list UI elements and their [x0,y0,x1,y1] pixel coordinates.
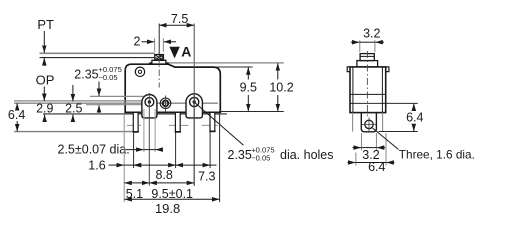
dimension 5.1 (bottom row 2) [124,183,149,201]
svg-text:7.5: 7.5 [171,12,188,26]
right mounting hole boss with tab below body [186,94,202,118]
dimension 1.6 (bottom row 1) [88,158,141,172]
plunger centerline [158,24,160,57]
middle circle vertical tick [165,96,167,113]
A position marker (filled triangle) [169,44,191,60]
molded circle mark on cover [135,67,144,76]
dimension 3.2 (side bottom, tab) [353,133,386,162]
svg-text:dia. holes: dia. holes [280,148,334,162]
left mounting hole boss with tab below body [142,95,157,118]
label 2.5±0.07 dia. with leader [58,143,164,157]
free position line (gray) [40,52,155,54]
dimension 6.4 (left) [8,103,25,131]
hole centerline pair (gray) [14,100,145,102]
dimension 9.5 (right, body height) [216,67,257,111]
label 2.35 dia. holes with leader [195,103,334,163]
left terminal [133,112,139,131]
terminal mounting reference dashes (gray) [127,124,218,126]
label Three, 1.6 dia. with leader [373,128,475,162]
cover seam line [350,93,386,95]
dimension 6.4 (side right) [379,103,424,131]
terminal tip reference line [14,131,133,133]
dimension 2.35 +0.075/-0.05 (hole dia, left) [74,65,122,113]
pin plunger (hatched) [155,55,164,61]
right hole vertical extension line (re-drawn over tab) [193,95,195,186]
dimension 7.5 (plunger center to hole center) [159,12,194,186]
side bottom tab [361,113,376,132]
right mounting hole [190,97,199,106]
dimension 19.8 (bottom row 3) [124,199,219,216]
svg-text:9.5: 9.5 [240,81,257,95]
extension line body left edge [123,114,125,202]
svg-text:3.2: 3.2 [363,27,380,41]
svg-text:7.3: 7.3 [198,169,215,183]
svg-text:6.4: 6.4 [406,111,423,125]
switch body outline [125,64,220,112]
middle terminal [175,112,181,131]
dimension 7.3 (bottom row 1) [176,165,217,183]
dimension 2.5 (left) [65,85,82,122]
middle circle (dimple) [160,98,171,109]
right ear [386,67,389,72]
svg-text:10.2: 10.2 [269,81,293,95]
svg-text:2.5: 2.5 [65,102,82,116]
hole top/bottom tangent lines (gray) [90,95,146,97]
operating position line [40,57,155,59]
svg-text:2: 2 [134,34,141,48]
inner contour lines [352,67,354,113]
hidden terminal projection lines (side view) [352,113,354,132]
seating reference line [43,113,227,115]
side centerline [366,51,368,116]
dimension 2.9 (left) [36,102,53,122]
left ear [347,67,350,72]
terminal hole in tab [362,118,376,132]
dimension 2 (plunger) [134,34,176,51]
svg-text:2.35: 2.35 [74,68,98,82]
side body outline [347,67,389,113]
side plunger [357,54,378,67]
PT label and arrow [37,17,54,53]
svg-text:2.9: 2.9 [36,102,53,116]
dimension 3.2 (side top, plunger) [351,27,384,53]
svg-text:A: A [181,44,191,60]
dimension 6.4 (side bottom, body) [348,133,395,174]
svg-text:1.6: 1.6 [88,158,105,172]
OP label and arrows [36,58,55,101]
svg-text:−0.05: −0.05 [251,154,270,163]
svg-text:PT: PT [37,17,54,32]
left mounting hole tangent extension lines [143,109,145,152]
extension line body right edge [219,114,221,202]
svg-text:9.5±0.1: 9.5±0.1 [151,187,193,201]
svg-text:5.1: 5.1 [126,187,143,201]
extension line middle terminal [175,133,177,169]
side view base line continued to 6.4 reference [350,102,386,104]
svg-text:OP: OP [36,73,55,88]
svg-text:2.5±0.07 dia.: 2.5±0.07 dia. [58,143,130,157]
left hole vertical centerline [148,93,150,186]
svg-text:Three, 1.6 dia.: Three, 1.6 dia. [399,148,475,162]
svg-text:2.35: 2.35 [228,148,252,162]
right terminal [209,112,215,131]
plunger collar / boss [150,60,169,64]
dimension 8.8 (bottom row 1) [134,165,176,182]
extension line left terminal [133,133,135,169]
left mounting hole [145,98,154,107]
extension line right terminal [209,132,211,168]
svg-text:19.8: 19.8 [155,201,180,214]
svg-text:6.4: 6.4 [8,108,25,122]
svg-text:6.4: 6.4 [368,160,385,174]
dimension 10.2 (right, total height) [169,63,294,112]
svg-text:8.8: 8.8 [156,168,173,182]
dimension 9.5±0.1 (bottom row 2) [149,183,194,201]
svg-text:−0.05: −0.05 [98,73,117,82]
